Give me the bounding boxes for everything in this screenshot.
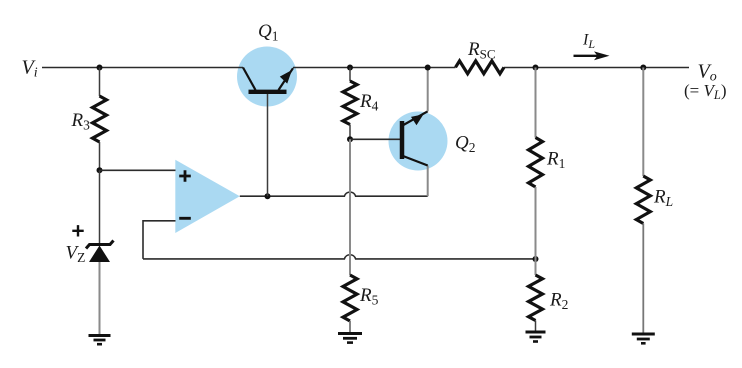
svg-text:VZ: VZ <box>66 243 86 266</box>
current arrow IL <box>574 51 610 60</box>
svg-text:Q1: Q1 <box>258 21 278 44</box>
wire R4 bottom to R5 <box>349 139 351 275</box>
node R4 top <box>347 65 353 71</box>
resistor R5 <box>343 275 357 333</box>
svg-text:RSC: RSC <box>467 39 496 62</box>
svg-text:R1: R1 <box>546 149 565 172</box>
resistor RL <box>636 68 650 334</box>
svg-text:R4: R4 <box>359 91 379 114</box>
wire op-amp output line with hop, to Q2 collector <box>240 192 428 196</box>
node feedback/R1-R2 junction <box>533 256 539 262</box>
node RSC right / R1 top <box>533 65 539 71</box>
wire Q2 base <box>350 138 400 140</box>
svg-text:R3: R3 <box>71 110 91 133</box>
resistor R2 <box>529 259 543 332</box>
ground (R2) <box>526 332 546 342</box>
wire op-amp minus input bend <box>143 221 176 259</box>
svg-text:R5: R5 <box>359 285 379 308</box>
resistor R3 <box>93 68 107 171</box>
op-amp U1 <box>175 160 240 233</box>
svg-text:Q2: Q2 <box>455 132 475 155</box>
wire top rail left (Vi to Q1 collector) <box>42 67 243 69</box>
node rail/R3 top <box>97 65 103 71</box>
ground (zener) <box>89 336 111 345</box>
resistor RSC <box>456 61 504 74</box>
node RL top <box>640 65 646 71</box>
resistor R4 <box>343 68 357 140</box>
svg-text:(= VL): (= VL) <box>684 81 727 102</box>
transistor Q2 highlight circle <box>389 112 448 171</box>
transistor Q1 <box>243 68 293 197</box>
ground (RL) <box>632 334 655 343</box>
plus sign at zener <box>72 225 83 236</box>
svg-text:R2: R2 <box>549 290 568 313</box>
svg-text:IL: IL <box>582 32 595 52</box>
node R3/zener/op-amp+ junction <box>97 167 103 173</box>
resistor R1 <box>529 68 543 260</box>
node Q2 emitter / RSC left <box>425 65 431 71</box>
transistor Q1 highlight circle <box>237 47 297 107</box>
transistor Q2 <box>402 68 428 166</box>
wire feedback line with hop over R5 line <box>143 255 536 259</box>
svg-text:Vi: Vi <box>22 57 38 81</box>
svg-text:RL: RL <box>653 187 673 210</box>
wire to op-amp + input <box>100 169 176 171</box>
node R4 bottom / Q2 base / R5 top <box>347 136 353 142</box>
zener diode VZ <box>86 170 114 335</box>
ground (R5) <box>338 334 362 343</box>
wire top rail right (Q1 emitter to Vo) <box>293 67 689 69</box>
node op-amp output / Q1 base <box>265 193 271 199</box>
